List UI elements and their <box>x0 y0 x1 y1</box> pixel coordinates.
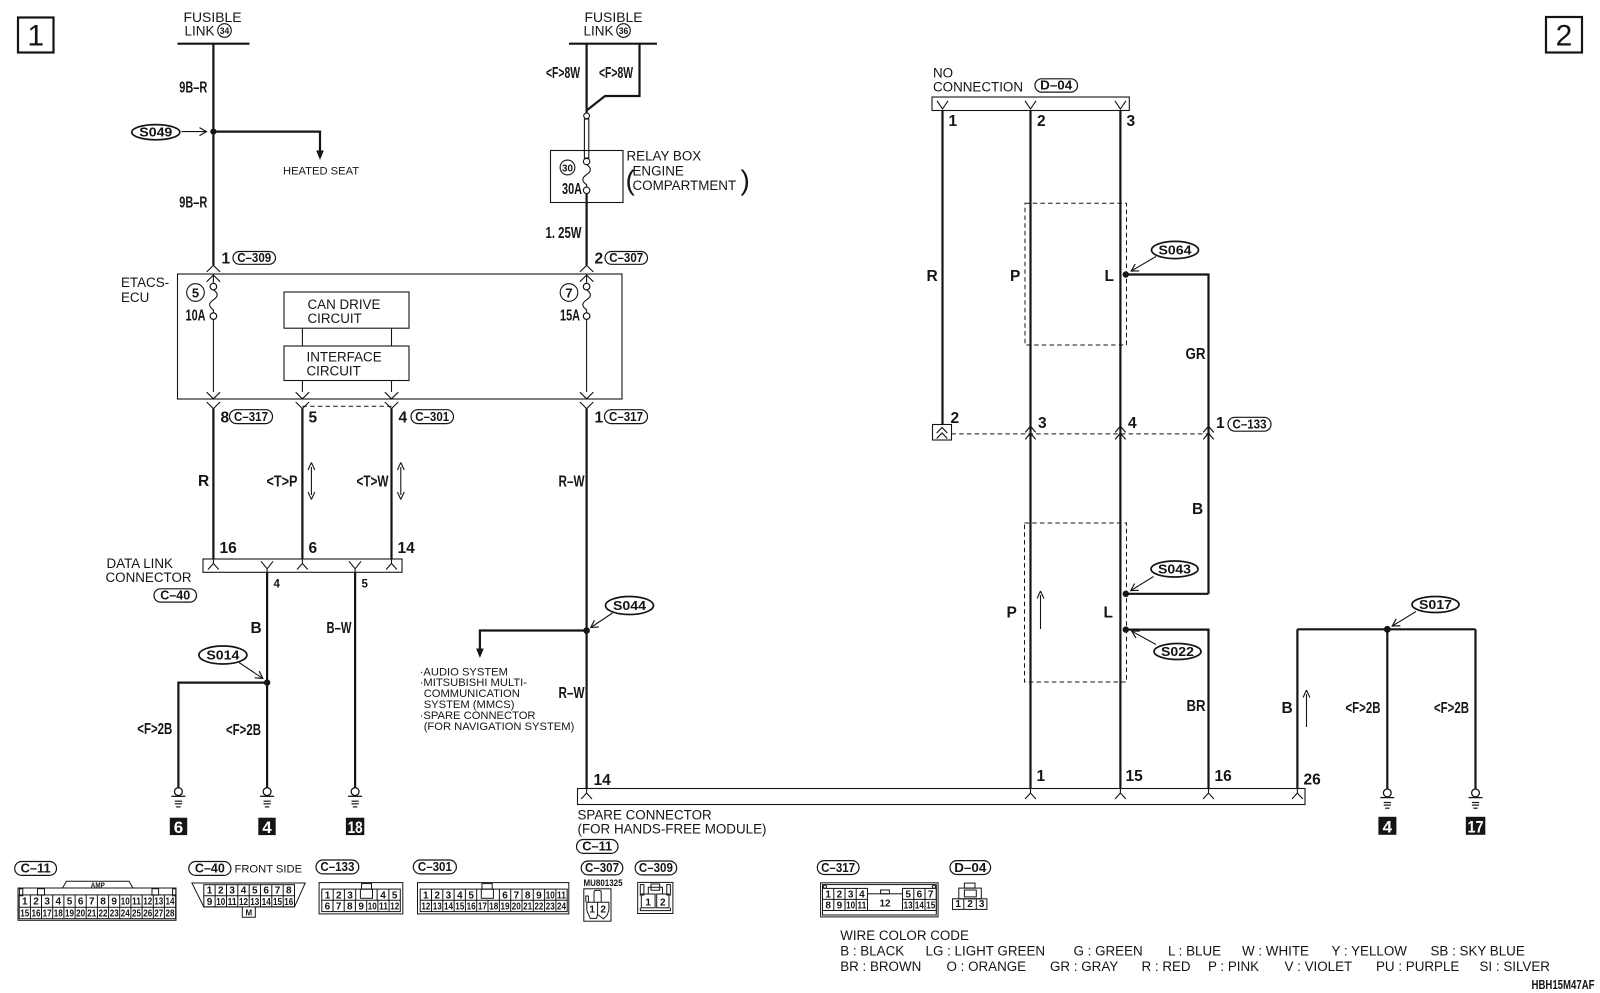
connector capsule C-307 <box>605 250 648 265</box>
no connection connector bar D-04 <box>932 97 1129 111</box>
bar entry chevron pin 26 <box>1292 789 1303 800</box>
svg-text:R–W: R–W <box>559 685 585 702</box>
svg-text:7: 7 <box>89 897 95 908</box>
svg-text:S043: S043 <box>1158 562 1191 577</box>
direction arrow on wire P <box>1037 591 1044 629</box>
splice S022 <box>1154 644 1201 660</box>
svg-text:18: 18 <box>54 909 63 920</box>
svg-text:SPARE CONNECTOR: SPARE CONNECTOR <box>578 808 713 823</box>
svg-text:WIRE COLOR CODE: WIRE COLOR CODE <box>840 928 969 943</box>
svg-text:GR : GRAY: GR : GRAY <box>1050 959 1118 974</box>
spare connector caption <box>578 808 767 837</box>
svg-text:26: 26 <box>1304 772 1322 789</box>
wire from S014 junction down to ground 4 <box>266 683 268 789</box>
svg-text:26: 26 <box>143 909 152 920</box>
connector drawing D-04 <box>953 883 987 910</box>
svg-text:BR: BR <box>1187 698 1206 715</box>
svg-text:4: 4 <box>262 818 272 837</box>
svg-text:<F>2B: <F>2B <box>1346 700 1381 717</box>
wire R from ETACS pin 8 to DLC pin 16 <box>212 408 214 559</box>
arrow from S014 to junction <box>239 663 263 679</box>
svg-text:C–133: C–133 <box>1233 417 1267 432</box>
svg-text:30: 30 <box>562 162 573 174</box>
svg-text:15A: 15A <box>560 308 580 325</box>
circled 30 relay number <box>560 160 575 175</box>
wire R-W from ETACS pin 1 to splice S044 <box>585 408 587 630</box>
circled 7 fuse number <box>560 284 578 302</box>
svg-text:12: 12 <box>421 902 430 913</box>
dashed option box lower <box>1025 523 1127 682</box>
connector capsule C-301 bottom <box>413 859 456 874</box>
DLC entry chevron pin 14 <box>386 559 397 570</box>
wire B from DLC pin 4 to splice S014 <box>266 572 268 682</box>
connector capsule C-40 bottom <box>189 861 231 876</box>
connector capsule D-04 top <box>1035 78 1078 93</box>
D-04 exit chevron pin 1 <box>937 101 948 109</box>
svg-text:20: 20 <box>512 902 521 913</box>
svg-text:21: 21 <box>87 909 96 920</box>
fusible link 34 bus bar <box>178 43 250 45</box>
arrow from S049 to junction <box>182 131 207 133</box>
svg-text:15: 15 <box>926 901 935 912</box>
svg-text:13: 13 <box>250 897 259 908</box>
svg-text:D–04: D–04 <box>1040 78 1073 93</box>
D-04 exit chevron pin 3 <box>1115 101 1126 109</box>
ETACS-ECU label <box>121 275 169 305</box>
dashed link between pin 5 and pin 4 <box>302 405 391 407</box>
svg-text:17: 17 <box>478 902 487 913</box>
svg-text:16: 16 <box>467 902 476 913</box>
svg-text:1: 1 <box>207 886 213 897</box>
crossing chevrons wire L pin 4 <box>1115 426 1125 439</box>
svg-text:3: 3 <box>979 899 985 910</box>
svg-text:23: 23 <box>546 902 555 913</box>
svg-text:4: 4 <box>241 886 247 897</box>
direction arrow on wire B <box>1303 690 1310 727</box>
ground symbol mid <box>260 788 274 807</box>
svg-text:R: R <box>198 473 209 490</box>
connector capsule C-11 bottom <box>15 861 57 876</box>
svg-text:5: 5 <box>67 897 73 908</box>
splice S064 <box>1152 241 1199 258</box>
ground number 4 <box>258 818 275 838</box>
svg-text:6: 6 <box>917 890 923 901</box>
svg-text:3: 3 <box>446 890 452 901</box>
svg-text:8: 8 <box>825 901 831 912</box>
svg-text:5: 5 <box>392 890 398 901</box>
svg-text:14: 14 <box>915 901 924 912</box>
dashed harness crossing line <box>952 433 1211 435</box>
svg-text:1: 1 <box>325 890 331 901</box>
junction dot S014 <box>264 679 270 685</box>
svg-text:1: 1 <box>222 251 231 268</box>
svg-text:15: 15 <box>1126 768 1144 785</box>
connector drawing C-301 <box>418 883 569 914</box>
svg-text:1: 1 <box>27 20 44 53</box>
ground symbol left <box>171 788 185 807</box>
svg-text:12: 12 <box>143 897 152 908</box>
data link connector box <box>203 559 402 572</box>
connector drawing C-133 <box>319 883 403 914</box>
svg-text:CONNECTOR: CONNECTOR <box>106 570 192 585</box>
page number box 1 <box>18 18 54 53</box>
svg-text:P: P <box>1010 268 1020 285</box>
svg-text:10: 10 <box>368 902 377 913</box>
svg-text:1: 1 <box>423 890 429 901</box>
svg-text:C–133: C–133 <box>320 859 354 874</box>
svg-text:7: 7 <box>336 902 342 913</box>
svg-text:1: 1 <box>595 410 604 427</box>
connector capsule C-317 bottom <box>817 860 859 875</box>
svg-text:4: 4 <box>1128 415 1137 432</box>
svg-text:17: 17 <box>43 909 52 920</box>
junction dot S022 <box>1123 626 1129 632</box>
svg-text:8: 8 <box>286 886 292 897</box>
bidirectional arrow on wire T-W <box>397 463 404 500</box>
DLC exit chevron pin 4 <box>261 561 273 572</box>
svg-text:4: 4 <box>56 897 62 908</box>
svg-text:34: 34 <box>220 26 230 37</box>
wire F2B to ground 4 <box>1386 629 1388 789</box>
svg-text:P : PINK: P : PINK <box>1208 959 1259 974</box>
wire 9B-R from fusible link 34 down to junction S049 <box>212 44 214 132</box>
splice S044 <box>606 597 654 615</box>
svg-text:S022: S022 <box>1161 644 1194 659</box>
svg-text:G : GREEN: G : GREEN <box>1074 944 1143 959</box>
svg-text:B–W: B–W <box>327 620 352 637</box>
wire P from D-04 pin 2 to spare connector pin 1 <box>1029 111 1031 789</box>
junction dot S044 <box>583 627 590 634</box>
svg-text:4: 4 <box>457 890 463 901</box>
connector drawing C-11 <box>18 881 176 921</box>
ground symbol right1 <box>1380 789 1394 808</box>
svg-text:5: 5 <box>309 410 318 427</box>
svg-text:9: 9 <box>837 901 843 912</box>
svg-text:B: B <box>251 620 262 637</box>
fuse 10A on wire from pin 1 <box>210 274 218 319</box>
svg-text:C–40: C–40 <box>160 588 190 603</box>
audio system list caption <box>420 666 575 733</box>
svg-text:9: 9 <box>358 902 364 913</box>
svg-text:2: 2 <box>1556 20 1573 53</box>
arrow from S017 to junction <box>1392 612 1416 627</box>
internal wire interface to box bottom left <box>301 381 303 393</box>
connector capsule C-133 bottom <box>316 859 359 874</box>
splice S049 <box>132 125 180 140</box>
fusible link element symbol <box>583 113 589 165</box>
svg-text:28: 28 <box>166 909 175 920</box>
svg-text:14: 14 <box>398 540 416 557</box>
svg-text:3: 3 <box>229 886 235 897</box>
svg-text:1: 1 <box>955 899 961 910</box>
svg-text:4: 4 <box>380 890 386 901</box>
connector entry chevrons at ETACS pin 1 <box>207 265 220 281</box>
internal wire from fuse 15A to box bottom <box>586 319 588 392</box>
svg-text:13: 13 <box>433 902 442 913</box>
svg-text:LG : LIGHT GREEN: LG : LIGHT GREEN <box>926 944 1046 959</box>
svg-text:12: 12 <box>239 897 248 908</box>
svg-text:8: 8 <box>347 902 353 913</box>
svg-text:R : RED: R : RED <box>1142 959 1191 974</box>
junction dot S043 <box>1123 591 1129 597</box>
svg-text:BR : BROWN: BR : BROWN <box>840 959 921 974</box>
svg-text:16: 16 <box>284 897 293 908</box>
svg-text:19: 19 <box>65 909 74 920</box>
svg-text:PU : PURPLE: PU : PURPLE <box>1376 959 1459 974</box>
svg-text:SB : SKY BLUE: SB : SKY BLUE <box>1431 944 1525 959</box>
svg-text:L: L <box>1104 605 1113 622</box>
fuse 30A element <box>583 165 591 194</box>
svg-text:8: 8 <box>221 410 230 427</box>
internal wire CAN to interface left <box>301 328 303 346</box>
D-04 exit chevron pin 2 <box>1025 101 1036 109</box>
svg-text:<F>2B: <F>2B <box>137 721 172 738</box>
svg-text:C–317: C–317 <box>234 409 268 424</box>
svg-text:1: 1 <box>22 897 28 908</box>
svg-text:11: 11 <box>132 897 141 908</box>
svg-text:C–317: C–317 <box>609 409 643 424</box>
svg-text:<T>W: <T>W <box>357 474 389 491</box>
svg-text:C–11: C–11 <box>21 861 51 876</box>
svg-text:1: 1 <box>1037 768 1046 785</box>
svg-text:4: 4 <box>274 579 281 591</box>
svg-text:1: 1 <box>1216 415 1225 432</box>
connector drawing C-309 <box>638 882 673 913</box>
svg-text:2: 2 <box>336 890 342 901</box>
svg-text:C–11: C–11 <box>582 839 612 854</box>
svg-text:5: 5 <box>192 285 199 300</box>
svg-text:ETACS-: ETACS- <box>121 275 169 290</box>
svg-text:16: 16 <box>220 540 238 557</box>
svg-text:B: B <box>1192 501 1203 518</box>
branch wire GR from S064 to the right <box>1123 275 1209 594</box>
wire color code line 2 <box>840 959 1550 974</box>
ground number 4 right <box>1378 817 1396 837</box>
connector capsule C-133 <box>1228 417 1271 432</box>
svg-text:C–317: C–317 <box>821 860 855 875</box>
interface circuit box <box>284 346 409 381</box>
svg-text:10: 10 <box>216 897 225 908</box>
svg-text:C–307: C–307 <box>585 860 619 875</box>
arrow from S022 to junction <box>1132 631 1156 644</box>
svg-text:W : WHITE: W : WHITE <box>1242 944 1309 959</box>
svg-text:21: 21 <box>523 902 532 913</box>
svg-text:2: 2 <box>595 251 604 268</box>
svg-text:HEATED SEAT: HEATED SEAT <box>283 166 359 178</box>
wire B-W from DLC pin 5 to ground 18 <box>354 572 356 788</box>
svg-text:(FOR NAVIGATION SYSTEM): (FOR NAVIGATION SYSTEM) <box>424 721 575 733</box>
svg-text:<T>P: <T>P <box>267 474 298 491</box>
svg-text:CIRCUIT: CIRCUIT <box>307 364 361 379</box>
fusible link 36 bus bar <box>569 43 657 45</box>
svg-text:3: 3 <box>1127 113 1136 130</box>
exit chevrons wire 4 C-301 <box>385 392 398 408</box>
svg-text:25: 25 <box>132 909 141 920</box>
svg-text:15: 15 <box>455 902 464 913</box>
fusible link 34 label <box>184 10 242 39</box>
svg-text:2: 2 <box>837 890 843 901</box>
svg-text:24: 24 <box>557 902 566 913</box>
svg-text:16: 16 <box>32 909 41 920</box>
svg-text:M: M <box>245 908 252 917</box>
svg-text:2: 2 <box>218 886 224 897</box>
wire F8W left branch <box>585 44 587 113</box>
svg-text:6: 6 <box>78 897 84 908</box>
connector drawing C-317 <box>821 883 939 917</box>
fusible link 36 label <box>584 10 643 39</box>
svg-text:5: 5 <box>905 890 911 901</box>
svg-text:11: 11 <box>228 897 237 908</box>
connector capsule C-309 bottom <box>635 860 677 875</box>
ground symbol right2 <box>1469 789 1483 808</box>
svg-text:INTERFACE: INTERFACE <box>307 350 382 365</box>
no connection label <box>933 66 1023 95</box>
svg-text:8: 8 <box>100 897 106 908</box>
svg-text:11: 11 <box>379 902 388 913</box>
connector capsule D-04 bottom <box>950 860 991 875</box>
svg-text:6: 6 <box>174 818 183 837</box>
svg-text:8: 8 <box>525 890 531 901</box>
svg-text:): ) <box>741 165 750 196</box>
ground number 17 <box>1466 817 1486 837</box>
wire 1.25W from relay box to ETACS pin 2 <box>585 194 587 266</box>
svg-text:10: 10 <box>846 901 855 912</box>
svg-text:6: 6 <box>263 886 269 897</box>
connector drawing C-40 <box>192 883 305 917</box>
connector capsule C-317 right <box>605 409 648 424</box>
wire T-P from ETACS pin 5 to DLC pin 6 <box>301 408 303 559</box>
svg-text:3: 3 <box>1038 415 1047 432</box>
connector capsule C-11 spare <box>577 839 619 854</box>
svg-text:FRONT SIDE: FRONT SIDE <box>235 864 303 876</box>
svg-text:S014: S014 <box>206 648 240 663</box>
svg-text:COMPARTMENT: COMPARTMENT <box>633 178 737 193</box>
branch wire to audio systems <box>476 631 586 659</box>
svg-text:L : BLUE: L : BLUE <box>1168 944 1221 959</box>
svg-text:2: 2 <box>660 897 666 908</box>
svg-text:11: 11 <box>557 890 566 901</box>
svg-text:12: 12 <box>879 899 891 910</box>
svg-text:18: 18 <box>489 902 498 913</box>
svg-text:2: 2 <box>967 899 973 910</box>
svg-text:2: 2 <box>600 905 606 916</box>
wire R from D-04 pin 1 <box>941 111 943 425</box>
S017 bus wire <box>1297 628 1475 630</box>
svg-text:1. 25W: 1. 25W <box>546 225 582 242</box>
connector capsule C-40 <box>154 588 197 603</box>
svg-text:15: 15 <box>273 897 282 908</box>
svg-text:B: B <box>1282 700 1293 717</box>
svg-text:5: 5 <box>468 890 474 901</box>
svg-text:SI : SILVER: SI : SILVER <box>1480 959 1551 974</box>
ETACS-ECU box <box>178 274 623 399</box>
svg-text:6: 6 <box>309 540 318 557</box>
svg-text:S049: S049 <box>139 125 172 140</box>
svg-text:4: 4 <box>1383 818 1393 837</box>
svg-text:2: 2 <box>434 890 440 901</box>
svg-text:6: 6 <box>502 890 508 901</box>
svg-text:Y : YELLOW: Y : YELLOW <box>1332 944 1408 959</box>
svg-text:C–309: C–309 <box>237 250 271 265</box>
svg-text:R–W: R–W <box>559 474 585 491</box>
svg-text:C–40: C–40 <box>195 861 225 876</box>
svg-text:27: 27 <box>154 909 163 920</box>
svg-text:B : BLACK: B : BLACK <box>840 944 904 959</box>
CAN drive circuit box <box>284 292 409 328</box>
svg-text:MU801325: MU801325 <box>584 878 623 888</box>
wire color code line 1 <box>840 944 1525 959</box>
bar entry chevron pin 1 <box>1025 789 1036 800</box>
spare connector bar C-11 <box>578 789 1306 805</box>
svg-text:ECU: ECU <box>121 290 149 305</box>
svg-text:AMP: AMP <box>91 881 105 890</box>
svg-text:2: 2 <box>1037 113 1046 130</box>
connector capsule C-301 <box>411 409 454 424</box>
connector capsule C-307 bottom <box>581 860 623 875</box>
svg-text:<F>8W: <F>8W <box>546 65 580 82</box>
svg-text:19: 19 <box>501 902 510 913</box>
ground symbol right <box>348 788 362 807</box>
svg-text:9: 9 <box>111 897 117 908</box>
connector capsule C-317 left <box>230 409 273 424</box>
svg-text:24: 24 <box>121 909 130 920</box>
connector capsule C-309 <box>233 250 276 265</box>
svg-text:L: L <box>1105 268 1114 285</box>
dashed option box upper <box>1025 203 1127 345</box>
svg-text:CAN DRIVE: CAN DRIVE <box>308 297 381 312</box>
circled 5 fuse number <box>187 284 205 302</box>
svg-text:P: P <box>1007 605 1017 622</box>
splice S014 <box>199 646 247 664</box>
svg-text:7: 7 <box>275 886 281 897</box>
svg-text:V : VIOLET: V : VIOLET <box>1285 959 1353 974</box>
branch wire BR from S022 <box>1123 630 1209 789</box>
svg-text:9B–R: 9B–R <box>179 195 207 212</box>
svg-text:13: 13 <box>154 897 163 908</box>
harness through connector symbol <box>933 425 952 441</box>
DLC entry chevron pin 6 <box>297 559 308 570</box>
svg-text:S017: S017 <box>1419 597 1452 612</box>
svg-text:3: 3 <box>44 897 50 908</box>
fuse 15A on wire from pin 2 <box>583 274 591 319</box>
svg-text:5: 5 <box>252 886 258 897</box>
wire 9B-R lower segment to ETACS pin 1 <box>212 132 214 265</box>
branch wire to heated seat <box>213 132 323 160</box>
svg-text:9B–R: 9B–R <box>179 80 207 97</box>
svg-text:<F>8W: <F>8W <box>599 65 633 82</box>
svg-text:C–307: C–307 <box>609 250 643 265</box>
svg-text:14: 14 <box>444 902 453 913</box>
svg-text:2: 2 <box>33 897 39 908</box>
svg-text:GR: GR <box>1186 346 1206 363</box>
connector entry chevrons at ETACS pin 2 <box>580 265 593 281</box>
svg-text:7: 7 <box>514 890 520 901</box>
DLC entry chevron pin 16 <box>208 559 219 570</box>
branch wire from S014 to left ground <box>178 683 267 789</box>
svg-text:D–04: D–04 <box>954 860 987 875</box>
wire R-W from S044 down to spare connector pin 14 <box>585 631 587 789</box>
relay box caption <box>626 149 750 196</box>
svg-text:C–309: C–309 <box>639 860 673 875</box>
relay box outline <box>551 151 624 203</box>
internal wire CAN to interface right <box>391 328 393 346</box>
arrow from S064 to junction <box>1131 257 1156 272</box>
svg-text:RELAY BOX: RELAY BOX <box>627 149 702 164</box>
svg-text:3: 3 <box>347 890 353 901</box>
svg-text:4: 4 <box>859 890 865 901</box>
data link connector label <box>106 556 192 585</box>
exit chevrons wire 5 <box>296 392 309 408</box>
